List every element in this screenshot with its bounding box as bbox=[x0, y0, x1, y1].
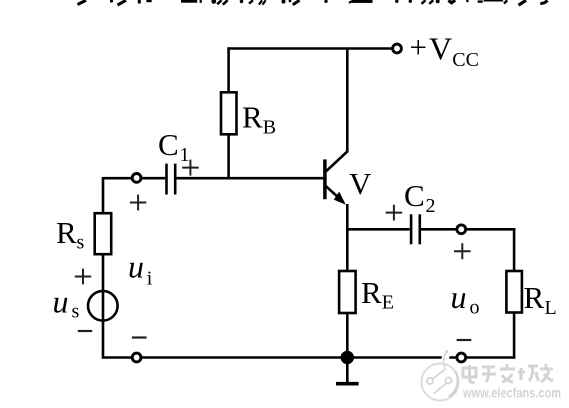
watermark logo diag line down bbox=[434, 383, 447, 394]
svg-text:R: R bbox=[242, 100, 263, 135]
svg-text:R: R bbox=[56, 215, 77, 250]
wire: C1 to base bbox=[177, 177, 324, 180]
wire: RL top lead bbox=[513, 228, 516, 271]
wire: RB top lead bbox=[227, 47, 230, 92]
plus sign below input terminal bbox=[130, 195, 146, 211]
output terminal circle top bbox=[457, 225, 466, 234]
wire: input left segment bbox=[103, 177, 132, 180]
transistor collector diagonal bbox=[326, 151, 348, 172]
wire: circle to C1 bbox=[142, 177, 166, 180]
svg-text:C: C bbox=[404, 178, 425, 213]
svg-text:i: i bbox=[147, 268, 153, 290]
svg-text:u: u bbox=[128, 249, 144, 285]
minus sign above bottom output terminal bbox=[457, 339, 472, 341]
wire: C2 to output terminal bbox=[421, 228, 456, 231]
svg-text:www.elecfans.com: www.elecfans.com bbox=[462, 385, 561, 401]
svg-text:C: C bbox=[158, 127, 179, 162]
label C1 bbox=[158, 127, 190, 166]
watermark chinese brand strokes 电 bbox=[463, 365, 476, 383]
label RB bbox=[242, 100, 276, 139]
wire: RL bottom lead bbox=[513, 313, 516, 359]
watermark chinese brand strokes 友 bbox=[540, 364, 553, 382]
watermark chinese brand strokes 烧 bbox=[518, 366, 539, 381]
resistor RB bbox=[221, 92, 237, 134]
label Rs bbox=[56, 215, 85, 253]
label uo bbox=[451, 279, 480, 319]
wire: emitter vertical to RE bbox=[346, 229, 349, 271]
plus sign right of C1 bbox=[182, 160, 199, 176]
svg-text:2: 2 bbox=[426, 195, 436, 217]
wire: RB bottom lead bbox=[227, 134, 230, 179]
watermark logo circle bbox=[422, 364, 459, 401]
svg-text:+: + bbox=[410, 30, 427, 65]
wire: bottom rail bbox=[103, 356, 514, 359]
label +VCC bbox=[410, 30, 479, 72]
transistor emitter diagonal bbox=[326, 186, 344, 202]
watermark logo pin circle left bbox=[427, 378, 433, 384]
svg-text:s: s bbox=[72, 301, 80, 323]
wire: collector vertical bbox=[346, 49, 349, 152]
svg-text:R: R bbox=[524, 280, 545, 315]
svg-text:B: B bbox=[263, 117, 276, 139]
label RL bbox=[524, 280, 557, 319]
capacitor C2 bbox=[411, 214, 420, 244]
input terminal circle bbox=[132, 174, 141, 183]
cropped title text (bottoms of Chinese characters) bbox=[78, 0, 548, 5]
plus sign above source bbox=[75, 269, 91, 285]
capacitor C1 bbox=[167, 164, 176, 195]
watermark logo sprout white mask over wire bbox=[445, 351, 448, 373]
resistor RE bbox=[339, 271, 356, 313]
ground junction dot bbox=[341, 351, 354, 364]
svg-text:u: u bbox=[53, 283, 69, 319]
label RE bbox=[361, 275, 394, 313]
transistor V base bar bbox=[323, 159, 327, 199]
svg-text:V: V bbox=[349, 166, 372, 201]
minus sign above bottom-left terminal bbox=[132, 336, 147, 338]
plus sign below output terminal bbox=[454, 243, 471, 259]
label ui bbox=[128, 249, 153, 290]
wire: top supply rail bbox=[229, 47, 392, 50]
watermark logo pin circle right bbox=[445, 377, 451, 383]
resistor Rs bbox=[95, 213, 112, 254]
bottom-left terminal circle bbox=[132, 353, 141, 362]
wire: Rs to source and down to bottom bbox=[102, 254, 105, 359]
label C2 bbox=[404, 178, 436, 217]
svg-text:V: V bbox=[429, 31, 452, 67]
watermark logo sprout curl bbox=[444, 351, 448, 370]
svg-text:s: s bbox=[77, 232, 85, 254]
watermark chinese brand strokes 子 bbox=[482, 367, 496, 382]
resistor RL bbox=[506, 271, 522, 313]
wire: emitter vertical to node bbox=[346, 204, 349, 231]
source us circle bbox=[88, 291, 118, 321]
svg-text:E: E bbox=[382, 292, 394, 314]
minus sign below source bbox=[78, 330, 92, 332]
ground bar bbox=[336, 382, 359, 386]
wire: left branch Rs top lead bbox=[102, 177, 105, 213]
transistor emitter arrowhead bbox=[334, 192, 346, 205]
bottom output terminal circle bbox=[457, 353, 466, 362]
label us bbox=[53, 283, 80, 322]
svg-text:u: u bbox=[451, 279, 467, 315]
plus sign left of C2 bbox=[386, 205, 403, 221]
svg-text:1: 1 bbox=[180, 144, 190, 166]
svg-text:CC: CC bbox=[452, 49, 479, 71]
watermark logo shadow arc bbox=[449, 371, 458, 397]
watermark logo diag line up bbox=[433, 369, 446, 379]
wire: RE bottom lead bbox=[346, 313, 349, 358]
wire: emitter node to C2 bbox=[347, 228, 410, 231]
ground stub bbox=[346, 358, 349, 383]
watermark chinese brand strokes 发 bbox=[500, 364, 515, 382]
supply terminal circle bbox=[393, 44, 402, 53]
svg-text:o: o bbox=[470, 297, 480, 319]
svg-text:L: L bbox=[545, 297, 557, 319]
svg-text:R: R bbox=[361, 275, 382, 310]
wire: output terminal to right corner bbox=[466, 228, 515, 231]
